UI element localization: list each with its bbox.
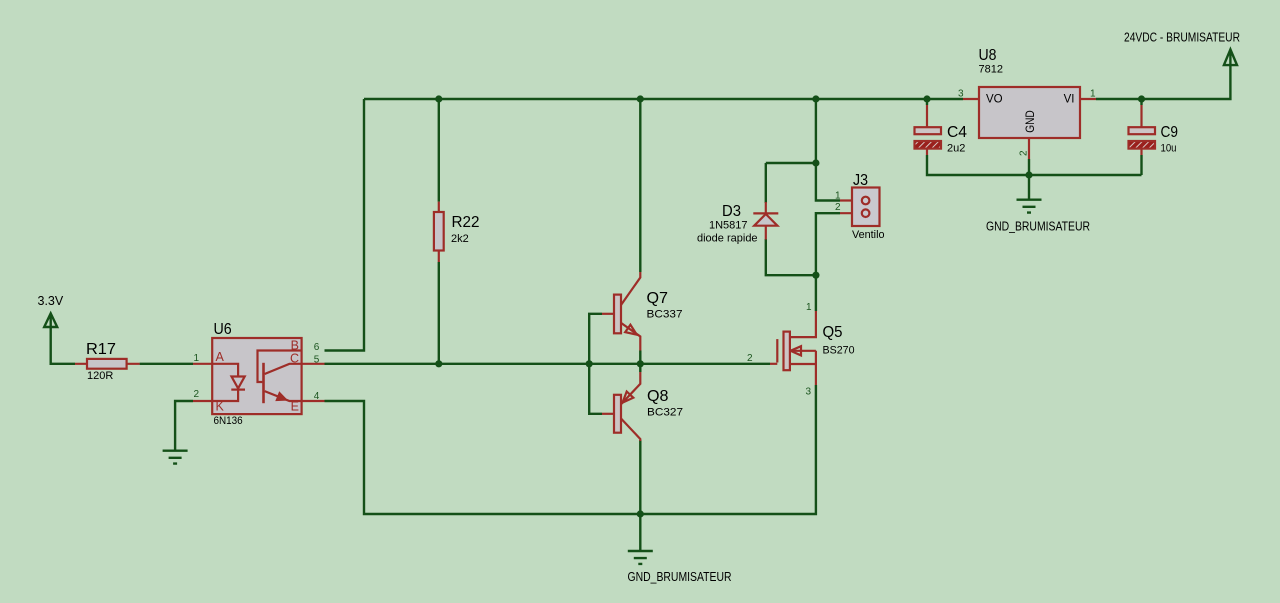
svg-text:2: 2	[193, 389, 199, 400]
svg-text:VI: VI	[1064, 94, 1075, 106]
svg-text:1N5817: 1N5817	[709, 220, 748, 232]
svg-text:5: 5	[314, 355, 320, 366]
svg-text:Q8: Q8	[647, 388, 669, 405]
svg-text:C: C	[290, 352, 299, 366]
svg-text:BC327: BC327	[647, 407, 683, 419]
svg-text:4: 4	[314, 391, 320, 402]
svg-text:GND: GND	[1025, 110, 1037, 133]
svg-text:6N136: 6N136	[214, 415, 243, 427]
svg-text:1: 1	[1090, 89, 1096, 100]
svg-text:U8: U8	[979, 47, 997, 64]
svg-text:R17: R17	[86, 341, 116, 358]
svg-text:GND_BRUMISATEUR: GND_BRUMISATEUR	[986, 220, 1090, 234]
svg-text:J3: J3	[853, 172, 868, 189]
svg-text:B: B	[291, 339, 299, 353]
svg-text:1: 1	[193, 353, 199, 364]
svg-text:A: A	[216, 350, 225, 364]
svg-text:U6: U6	[214, 321, 232, 338]
svg-text:3.3V: 3.3V	[38, 294, 64, 308]
svg-text:GND_BRUMISATEUR: GND_BRUMISATEUR	[628, 570, 732, 584]
svg-text:VO: VO	[986, 94, 1003, 106]
svg-text:diode rapide: diode rapide	[697, 233, 758, 245]
svg-text:Q5: Q5	[823, 324, 843, 341]
svg-text:2u2: 2u2	[947, 143, 965, 155]
svg-text:C4: C4	[947, 124, 967, 141]
svg-text:K: K	[216, 400, 225, 414]
svg-text:10u: 10u	[1161, 143, 1177, 155]
svg-text:BS270: BS270	[823, 345, 855, 357]
svg-text:2: 2	[747, 353, 753, 364]
svg-text:1: 1	[806, 302, 812, 313]
svg-text:3: 3	[805, 387, 811, 398]
svg-text:24VDC - BRUMISATEUR: 24VDC - BRUMISATEUR	[1124, 31, 1240, 45]
svg-text:2k2: 2k2	[451, 233, 469, 245]
svg-text:120R: 120R	[87, 370, 113, 382]
svg-text:E: E	[291, 400, 299, 414]
svg-text:2: 2	[835, 202, 841, 213]
svg-text:Q7: Q7	[647, 290, 669, 307]
svg-text:BC337: BC337	[647, 309, 683, 321]
svg-text:1: 1	[835, 191, 841, 202]
svg-text:6: 6	[314, 342, 320, 353]
svg-text:D3: D3	[722, 203, 741, 220]
svg-text:Ventilo: Ventilo	[852, 229, 885, 241]
svg-text:R22: R22	[452, 214, 480, 231]
svg-text:C9: C9	[1161, 124, 1179, 141]
svg-text:7812: 7812	[979, 64, 1003, 76]
svg-text:2: 2	[1019, 150, 1030, 156]
svg-text:3: 3	[958, 89, 964, 100]
